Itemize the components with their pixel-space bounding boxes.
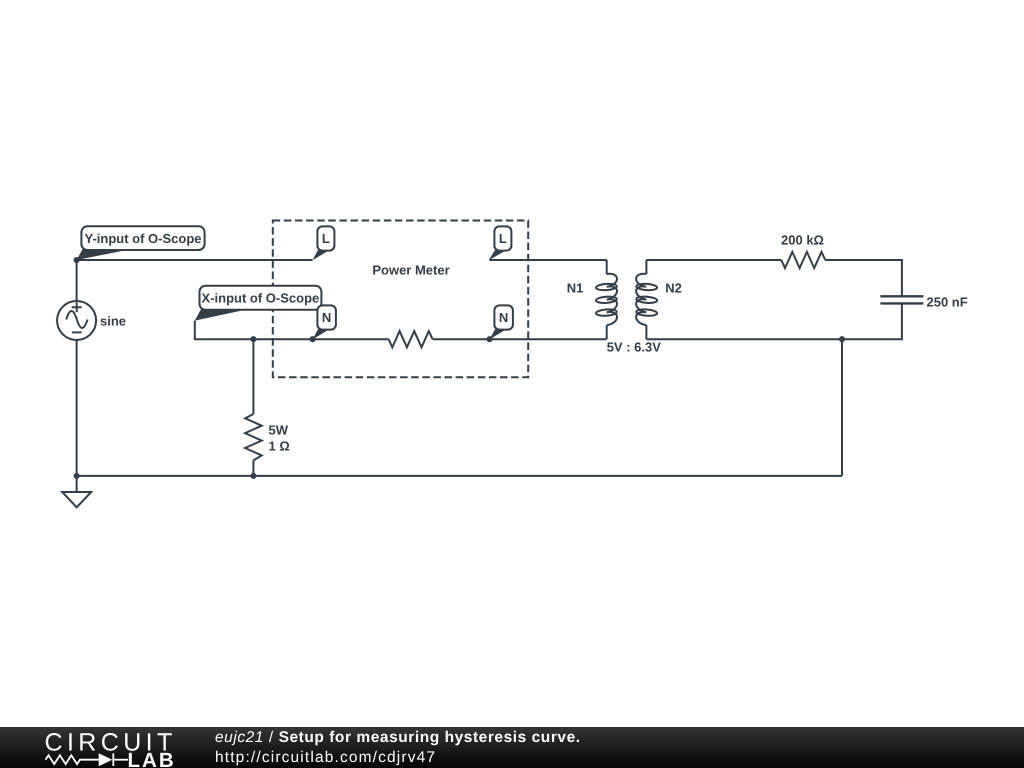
resistor R1 5W 1ohm (vertical) [245, 414, 262, 460]
svg-text:sine: sine [100, 314, 126, 329]
svg-text:L: L [499, 231, 507, 246]
wire: primary bottom back to N2 terminal [490, 338, 607, 340]
wire: down to 5W resistor [252, 339, 254, 414]
wire: capacitor bottom down and left to secondary bottom [646, 303, 902, 339]
junction dot on rail below R1 [250, 473, 256, 479]
terminal N2 (right) [490, 305, 513, 339]
power meter dashed boundary [273, 221, 528, 378]
footer url line [215, 749, 436, 767]
capacitor C1 250nF [880, 296, 923, 303]
svg-text:200 kΩ: 200 kΩ [781, 233, 824, 248]
wire: L2 to transformer primary top [489, 259, 606, 261]
resistor R2 200k [781, 252, 825, 268]
voltage source V1 (sine) [57, 301, 96, 340]
wire: 200k to capacitor top [825, 260, 902, 296]
transformer T1 secondary N2 coil [645, 260, 647, 274]
svg-text:L: L [322, 231, 330, 246]
annotation callout X-input of O-Scope [195, 286, 322, 321]
svg-text:Y-input of O-Scope: Y-input of O-Scope [85, 231, 202, 246]
wire: node A to source top [76, 260, 78, 301]
footer bar [0, 727, 1024, 768]
svg-text:N: N [322, 310, 331, 325]
junction dot at ground [74, 473, 80, 479]
footer title line [215, 729, 581, 747]
junction dot at N2 tap [487, 336, 493, 342]
wire: resistor to ground rail [252, 460, 254, 476]
transformer T1 primary N1 coil [606, 260, 608, 274]
svg-text:5V : 6.3V: 5V : 6.3V [607, 340, 662, 355]
node A junction dot [74, 257, 80, 263]
terminal L2 (right) [489, 226, 512, 260]
annotation callout Y-input of O-Scope [77, 226, 205, 260]
svg-text:LAB: LAB [128, 749, 176, 768]
wire: top rail from node A to terminal L1 [77, 259, 313, 261]
wire: down from junction to bottom rail [841, 339, 843, 476]
wire: N1 to internal resistor [313, 338, 389, 340]
svg-text:N2: N2 [665, 281, 682, 296]
svg-text:X-input of O-Scope: X-input of O-Scope [202, 290, 320, 305]
svg-text:5W: 5W [269, 423, 289, 438]
wire: source bottom to ground rail [76, 340, 78, 476]
svg-text:N: N [499, 310, 508, 325]
node dot above 5W resistor [250, 336, 256, 342]
terminal N1 (left) [313, 305, 336, 339]
CircuitLab logo [0, 727, 200, 768]
wire: internal resistor to N2 [433, 338, 490, 340]
svg-text:N1: N1 [567, 281, 584, 296]
junction dot at N1 tap [310, 336, 316, 342]
svg-text:1 Ω: 1 Ω [269, 439, 290, 454]
terminal L1 (left) [312, 226, 334, 260]
svg-text:Power Meter: Power Meter [372, 263, 449, 278]
resistor (power meter shunt) [389, 331, 433, 347]
ground symbol [62, 476, 91, 507]
wire: X-callout elbow down and right to N1 [195, 321, 313, 340]
wire: bottom ground rail [77, 475, 842, 477]
wire: secondary top to 200k resistor [646, 259, 781, 261]
junction dot right branch [839, 336, 845, 342]
svg-text:250 nF: 250 nF [927, 295, 968, 310]
